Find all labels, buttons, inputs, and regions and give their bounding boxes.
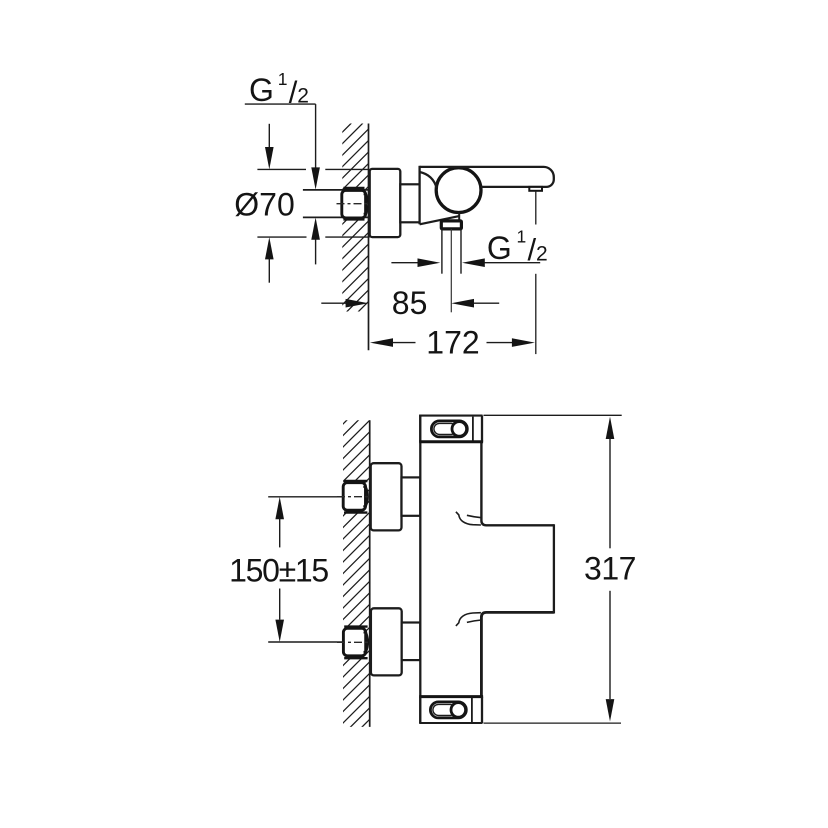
top mounting plate (bottom view) [419, 416, 483, 442]
dim G1/2 leader underline [245, 103, 316, 105]
body left edge (bottom view) [419, 415, 421, 723]
svg-text:317: 317 [584, 551, 636, 587]
spout aerator (top view) [529, 187, 542, 191]
spout outlet extension line [535, 191, 537, 354]
dim 317 arrow up [606, 417, 615, 549]
bottom plate slot [430, 702, 466, 718]
spout outline (top view) [420, 167, 554, 187]
dim 150±15 arrow up [275, 497, 284, 548]
svg-text:1: 1 [517, 226, 527, 246]
dim 317 extension lines [484, 415, 622, 723]
body-knob transition curve (top view) [420, 172, 437, 188]
union centerline (dash-dot, top view) [337, 203, 370, 205]
dim G1/2 (wall union) label [249, 69, 309, 110]
escutcheon (top view) [370, 169, 401, 237]
body lower right edge stroke fix [480, 616, 482, 723]
faucet body + spout fill (top view) [420, 167, 554, 224]
svg-text:1: 1 [278, 69, 288, 89]
wall hatching (top view) [330, 83, 380, 340]
dim G1/2 arrow up + tail [311, 218, 320, 265]
supply pipe stub lines in wall (top view) [303, 190, 370, 218]
body left edge (top view) [418, 166, 420, 225]
dim G1/2 (shower outlet) label [487, 226, 548, 267]
knob neck edge (top view) [458, 213, 460, 221]
dim 317 arrow down [606, 591, 615, 722]
dim 150±15 arrow down [275, 589, 284, 643]
thermostat knob circle (top view) [436, 168, 481, 213]
svg-text:2: 2 [536, 242, 548, 265]
upper escutcheon (bottom view) [371, 463, 402, 530]
wall hatching (bottom view) [330, 385, 382, 759]
upper wall union (bottom view) [343, 481, 368, 513]
svg-text:G: G [249, 72, 274, 108]
wall union square (top view) [342, 188, 368, 219]
connector pipe escutcheon-to-body (top view) [400, 184, 419, 222]
svg-text:150±15: 150±15 [229, 553, 328, 589]
spout root curve lower (bottom view) [456, 613, 482, 626]
dim 172 [370, 324, 535, 360]
dim G1/2 leader vertical + arrow down [311, 104, 320, 190]
wall face line (bottom view) [369, 420, 371, 727]
faucet body slab (bottom view) [420, 416, 482, 723]
wall face line (top view) [368, 124, 370, 351]
lower escutcheon (bottom view) [371, 608, 402, 675]
svg-text:G: G [487, 230, 512, 266]
lower connector pipe (bottom view) [402, 623, 421, 661]
dim Ø70 arrow down [265, 124, 274, 170]
top plate slot [431, 421, 467, 437]
dim 150±15 extension lines [268, 497, 343, 642]
dim Ø70 extension line bottom [257, 236, 369, 238]
upper connector pipe (bottom view) [402, 477, 421, 515]
spout block right edge [553, 524, 555, 613]
dim Ø70 arrow up [265, 237, 274, 283]
body right edge upper segment + corner into spout top [481, 415, 554, 526]
shower outlet collar (top view) [441, 221, 461, 229]
body bottom slant (top view) [420, 216, 460, 224]
shower outlet centerline (top view) [450, 229, 452, 312]
spout root curve upper (bottom view) [456, 512, 482, 525]
dim 85 [321, 285, 499, 321]
svg-text:85: 85 [392, 285, 428, 321]
spout block bottom edge + corner into body lower right edge [481, 612, 554, 723]
lower union centerline (dash-dot) [337, 641, 370, 643]
bottom mounting plate (bottom view) [419, 697, 483, 723]
dim Ø70 extension line top [257, 168, 369, 170]
shower outlet pipe edges (top view) [442, 229, 461, 274]
lower wall union (bottom view) [343, 627, 368, 659]
spout block (bottom view) [481, 525, 554, 612]
upper union centerline (dash-dot) [337, 496, 370, 498]
svg-text:Ø70: Ø70 [234, 187, 294, 223]
dim G1/2 (shower outlet) arrows [391, 258, 540, 267]
svg-text:172: 172 [426, 324, 479, 360]
